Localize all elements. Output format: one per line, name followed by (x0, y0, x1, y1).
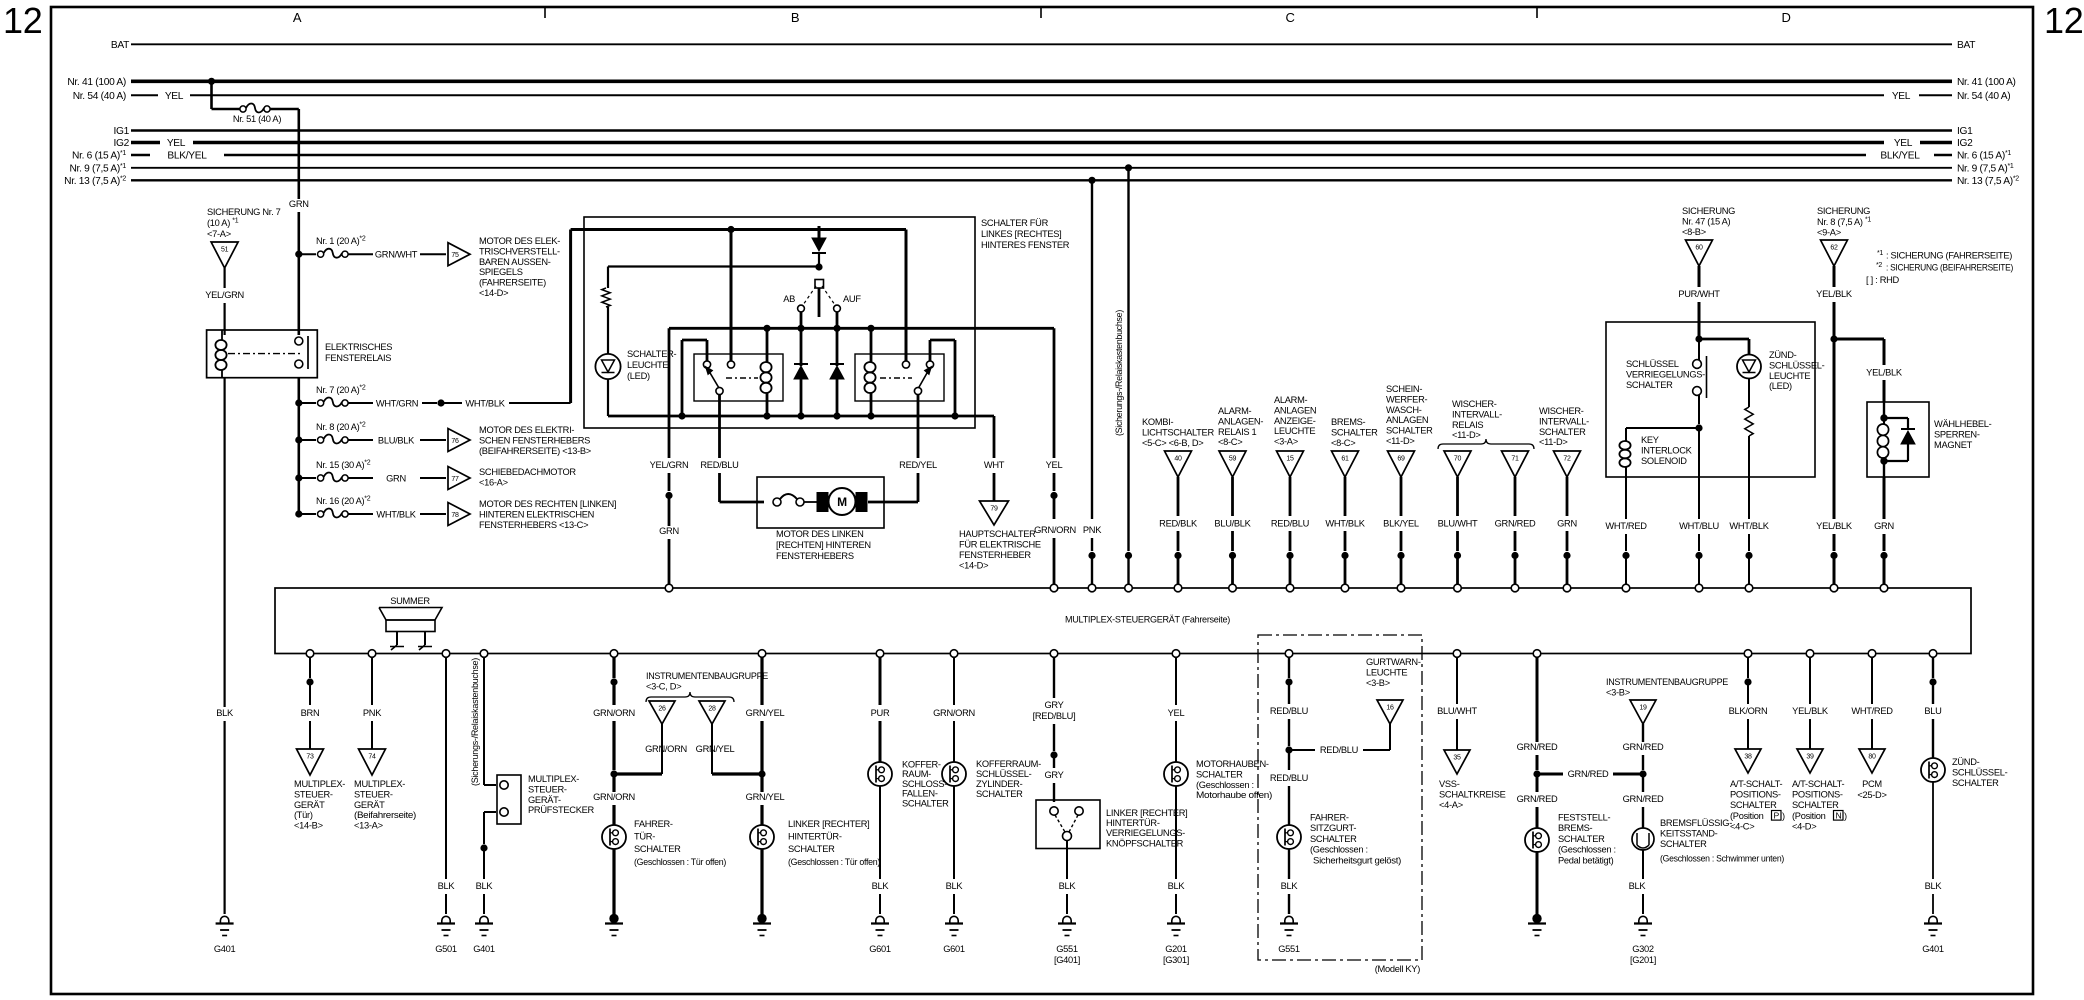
svg-text:26: 26 (658, 706, 666, 713)
svg-text:ZÜND-: ZÜND- (1952, 757, 1980, 767)
component SCHEINWERFER-WASCHANLAGEN triangle 69 (1388, 451, 1415, 477)
svg-text:SCHALTER: SCHALTER (1660, 839, 1707, 849)
wire GRN down to relay (297, 109, 300, 199)
switch box SCHALTER FUER HINTERES FENSTER (584, 217, 975, 428)
fuse row Nr.1 (20A) -> mirror motor 75 (296, 251, 302, 257)
BREMSFLUESSIGKEITSSTAND-SCHALTER symbol (1632, 828, 1654, 850)
svg-text:KEY: KEY (1641, 435, 1659, 445)
svg-text:BLK/YEL: BLK/YEL (167, 151, 207, 162)
svg-text:HINTERTÜR-: HINTERTÜR- (1106, 818, 1160, 828)
svg-text:38: 38 (1744, 754, 1752, 761)
svg-text:IG2: IG2 (113, 138, 129, 149)
svg-text:YEL: YEL (167, 138, 186, 149)
svg-text:<11-D>: <11-D> (1539, 437, 1568, 447)
svg-text:MULTIPLEX-STEUERGERÄT (Fahrers: MULTIPLEX-STEUERGERÄT (Fahrerseite) (1065, 615, 1230, 625)
svg-text:GERÄT: GERÄT (294, 800, 325, 810)
multiplex top edge connectors (665, 584, 673, 592)
svg-text:MOTOR DES LINKEN: MOTOR DES LINKEN (776, 529, 864, 539)
svg-text:SUMMER: SUMMER (390, 596, 430, 606)
svg-text:G302: G302 (1632, 944, 1654, 954)
svg-text:WERFER-: WERFER- (1386, 394, 1427, 404)
svg-text:P: P (1774, 811, 1780, 821)
svg-text:INTERVALL-: INTERVALL- (1452, 409, 1502, 419)
svg-text:G201: G201 (1165, 944, 1187, 954)
svg-text:GRN: GRN (1874, 521, 1894, 531)
svg-text:<16-A>: <16-A> (479, 477, 508, 487)
svg-text:SCHLOSS-: SCHLOSS- (902, 779, 947, 789)
svg-text:BLK: BLK (476, 881, 494, 891)
fuse Nr.51 (40A) (212, 108, 241, 111)
component BREMS-SCHALTER triangle 61 (1332, 451, 1359, 477)
svg-text:SCHALTER: SCHALTER (1539, 427, 1586, 437)
svg-text:GRY: GRY (1044, 770, 1063, 780)
svg-text:IG1: IG1 (113, 126, 129, 137)
svg-text:<4-C>: <4-C> (1730, 821, 1754, 831)
svg-text:<5-C> <6-B, D>: <5-C> <6-B, D> (1142, 438, 1203, 448)
svg-text:Nr. 9 (7,5 A)*1: Nr. 9 (7,5 A)*1 (1957, 163, 2014, 175)
bus Nr.54 (40A) YEL (131, 94, 158, 96)
rocker contact (815, 280, 824, 289)
svg-text:G501: G501 (435, 944, 457, 954)
svg-text:SCHLÜSSEL-: SCHLÜSSEL- (1769, 360, 1825, 370)
svg-text:G601: G601 (869, 944, 891, 954)
svg-text:70: 70 (1454, 456, 1462, 463)
svg-text:(Geschlossen :: (Geschlossen : (1196, 780, 1254, 790)
left relay contact loop to bottom (706, 340, 709, 361)
switch box VERRIEGELUNGS-KNOPFSCHALTER (1036, 800, 1100, 849)
svg-text:WÄHLHEBEL-: WÄHLHEBEL- (1934, 419, 1992, 429)
svg-text:PUR: PUR (871, 708, 890, 718)
wire WHT/RED (1625, 477, 1627, 519)
svg-text:<4-A>: <4-A> (1439, 800, 1463, 810)
svg-text:BAREN AUSSEN-: BAREN AUSSEN- (479, 257, 551, 267)
svg-text:60: 60 (1695, 245, 1703, 252)
wire GRN/YEL HINTERTUER-SCHALTER (760, 657, 763, 705)
ground G401 left (220, 916, 228, 923)
svg-text:71: 71 (1511, 456, 1519, 463)
svg-text:ZYLINDER-: ZYLINDER- (976, 779, 1023, 789)
svg-text:M: M (837, 495, 847, 509)
bus IG2 YEL (131, 141, 160, 144)
svg-text:: SICHERUNG (BEIFAHRERSEITE): : SICHERUNG (BEIFAHRERSEITE) (1886, 263, 2013, 273)
svg-text:KOMBI-: KOMBI- (1142, 417, 1173, 427)
svg-text:AUF: AUF (843, 294, 861, 304)
svg-text:Nr. 7 (20 A)*2: Nr. 7 (20 A)*2 (316, 385, 366, 396)
svg-text:WHT/GRN: WHT/GRN (376, 399, 418, 409)
svg-text:G401: G401 (214, 944, 236, 954)
svg-text:78: 78 (451, 512, 459, 519)
svg-text:RED/BLU: RED/BLU (1270, 706, 1308, 716)
svg-text:G401: G401 (473, 944, 495, 954)
svg-text:WHT/RED: WHT/RED (1605, 521, 1647, 531)
svg-text:Nr. 41 (100 A): Nr. 41 (100 A) (67, 77, 126, 88)
svg-text:STEUER-: STEUER- (294, 789, 333, 799)
svg-text:LINKES [RECHTES]: LINKES [RECHTES] (981, 229, 1061, 239)
svg-text:WHT: WHT (984, 460, 1005, 470)
wire WHT/RED PCM triangle 80 (1871, 657, 1873, 704)
column tick C/D (1536, 8, 1538, 18)
svg-text:GURTWARN-: GURTWARN- (1366, 657, 1421, 667)
svg-text:BLU/WHT: BLU/WHT (1437, 706, 1477, 716)
svg-text:A/T-SCHALT-: A/T-SCHALT- (1792, 779, 1845, 789)
svg-text:KEITSSTAND-: KEITSSTAND- (1660, 828, 1718, 838)
svg-text:AB: AB (783, 294, 795, 304)
svg-text:POSITIONS-: POSITIONS- (1792, 789, 1843, 799)
svg-text:SCHALTER: SCHALTER (1331, 427, 1378, 437)
svg-text:SITZGURT-: SITZGURT- (1310, 823, 1356, 833)
left relay of switch (694, 354, 783, 401)
bus Nr.9 (7,5A) (131, 167, 1952, 169)
relay contacts (295, 337, 303, 345)
svg-text:FENSTERELAIS: FENSTERELAIS (325, 353, 391, 363)
svg-text:<14-B>: <14-B> (294, 821, 323, 831)
wire YEL MOTORHAUBEN-SCHALTER (1175, 657, 1177, 705)
svg-text:SOLENOID: SOLENOID (1641, 456, 1687, 466)
svg-text:LEUCHTE: LEUCHTE (1769, 371, 1810, 381)
svg-text:YEL: YEL (1168, 708, 1185, 718)
svg-text:(Position: (Position (1792, 811, 1826, 821)
wire WHT/BLU (1698, 428, 1700, 477)
svg-text:GRN: GRN (659, 526, 679, 536)
svg-text:TÜR-: TÜR- (634, 832, 655, 842)
svg-text:SCHALTER: SCHALTER (1196, 769, 1243, 779)
svg-text:(Tür): (Tür) (294, 810, 313, 820)
svg-text:*1: *1 (1877, 250, 1883, 257)
magnet diode (1884, 417, 1908, 419)
svg-text:GRY: GRY (1044, 700, 1063, 710)
wire YEL/BLK down (1833, 335, 1836, 520)
svg-text:75: 75 (451, 252, 459, 259)
svg-text:KOFFER-: KOFFER- (902, 760, 941, 770)
svg-text:<11-D>: <11-D> (1386, 436, 1415, 446)
fuse triangle 51 (211, 242, 238, 268)
box SCHLUESSEL VERRIEGELUNGSSCHALTER (1606, 322, 1815, 477)
svg-text:FAHRER-: FAHRER- (634, 819, 673, 829)
svg-text:(Geschlossen :: (Geschlossen : (1558, 845, 1616, 855)
svg-text:35: 35 (1453, 755, 1461, 762)
svg-text:WASCH-: WASCH- (1386, 405, 1422, 415)
svg-text:GERÄT-: GERÄT- (528, 795, 561, 805)
svg-text:SCHLÜSSEL: SCHLÜSSEL (1626, 359, 1679, 369)
svg-text:GRN/YEL: GRN/YEL (746, 708, 785, 718)
wire Sicherungs-Relaiskastenbuchse to Pruefstecker (483, 657, 485, 785)
svg-text:HINTERES FENSTER: HINTERES FENSTER (981, 240, 1070, 250)
wire BLK/ORN AT-SCHALT P triangle 38 (1747, 657, 1749, 678)
svg-text:RED/BLU: RED/BLU (1271, 519, 1309, 529)
svg-text:YEL: YEL (1046, 460, 1063, 470)
svg-text:RED/BLU: RED/BLU (1270, 773, 1308, 783)
wire WHT/BLK up to switch box (569, 230, 572, 404)
svg-text:HINTEREN ELEKTRISCHEN: HINTEREN ELEKTRISCHEN (479, 509, 594, 519)
svg-text:PRÜFSTECKER: PRÜFSTECKER (528, 805, 595, 815)
svg-text:SICHERUNG: SICHERUNG (1817, 206, 1870, 216)
svg-text:Nr. 41 (100 A): Nr. 41 (100 A) (1957, 77, 2016, 88)
svg-text:<25-D>: <25-D> (1857, 790, 1886, 800)
bottom inner wire (608, 415, 955, 418)
dash-dot box Modell KY (1258, 635, 1422, 960)
svg-text:WISCHER-: WISCHER- (1539, 406, 1584, 416)
svg-text:GRN: GRN (1557, 519, 1577, 529)
svg-text:GRN/YEL: GRN/YEL (746, 792, 785, 802)
fuse triangle 62 (1821, 240, 1848, 266)
svg-text:PUR/WHT: PUR/WHT (1678, 289, 1720, 299)
svg-text:Nr. 8 (20 A)*2: Nr. 8 (20 A)*2 (316, 422, 366, 433)
right relay of switch (855, 354, 944, 401)
svg-text:BLK: BLK (1281, 881, 1299, 891)
svg-text:15: 15 (1286, 456, 1294, 463)
svg-text:YEL: YEL (1892, 91, 1911, 102)
svg-text:<8-C>: <8-C> (1331, 438, 1355, 448)
bus BAT (131, 43, 1952, 45)
svg-text:SCHIEBEDACHMOTOR: SCHIEBEDACHMOTOR (479, 467, 576, 477)
svg-text:(LED): (LED) (627, 371, 650, 381)
svg-text:GRN/ORN: GRN/ORN (593, 708, 635, 718)
svg-text:40: 40 (1174, 456, 1182, 463)
svg-text:G551: G551 (1278, 944, 1300, 954)
connector MULTIPLEX-PRUEFSTECKER (497, 775, 521, 824)
wire BLK to G501 (445, 657, 447, 879)
svg-text:16: 16 (1386, 705, 1394, 712)
svg-text:BAT: BAT (1957, 40, 1975, 51)
svg-text:RED/YEL: RED/YEL (899, 460, 937, 470)
svg-text:FENSTERHEBERS <13-C>: FENSTERHEBERS <13-C> (479, 520, 588, 530)
svg-text:(Geschlossen : Tür offen): (Geschlossen : Tür offen) (788, 857, 880, 867)
wire from Nr.41 down (210, 81, 213, 109)
svg-text:ELEKTRISCHES: ELEKTRISCHES (325, 342, 392, 352)
svg-text:SCHALTER: SCHALTER (1626, 380, 1673, 390)
svg-text:FÜR ELEKTRISCHE: FÜR ELEKTRISCHE (959, 540, 1041, 550)
junction GRN/RED link (1537, 773, 1563, 776)
wire AB down to diode (800, 312, 803, 366)
svg-text:MOTOR DES RECHTEN [LINKEN]: MOTOR DES RECHTEN [LINKEN] (479, 499, 616, 509)
svg-text:Nr. 16 (20 A)*2: Nr. 16 (20 A)*2 (316, 496, 371, 507)
diode at top of switch (818, 226, 821, 238)
resistor below LED (1745, 407, 1753, 436)
svg-text:WHT/BLK: WHT/BLK (376, 510, 416, 520)
svg-text:BLU/BLK: BLU/BLK (1214, 519, 1251, 529)
svg-text:BLK: BLK (946, 881, 964, 891)
svg-text:GRN/ORN: GRN/ORN (933, 708, 975, 718)
svg-text:N: N (1836, 811, 1842, 821)
svg-text:<8-B>: <8-B> (1682, 227, 1706, 237)
svg-text:KNÖPFSCHALTER: KNÖPFSCHALTER (1106, 838, 1184, 848)
svg-text:ANLAGEN-: ANLAGEN- (1218, 416, 1263, 426)
svg-text:GRN: GRN (289, 199, 309, 209)
svg-text:Nr. 13 (7,5 A)*2: Nr. 13 (7,5 A)*2 (1957, 176, 2019, 188)
svg-text:YEL/BLK: YEL/BLK (1866, 368, 1903, 378)
svg-text:VSS-: VSS- (1439, 779, 1460, 789)
svg-text:Nr. 54 (40 A): Nr. 54 (40 A) (73, 91, 126, 102)
svg-text:SCHALTER: SCHALTER (1558, 834, 1605, 844)
svg-text:BAT: BAT (111, 40, 129, 51)
multiplex control unit box (275, 588, 1971, 654)
right relay coil wire (870, 328, 873, 362)
svg-text:<8-C>: <8-C> (1218, 437, 1242, 447)
relay coil (215, 340, 226, 350)
svg-text:YEL/BLK: YEL/BLK (1816, 289, 1853, 299)
dashed rocker links AB AUF (803, 286, 816, 305)
svg-text:Nr. 51 (40 A): Nr. 51 (40 A) (233, 114, 281, 124)
svg-text:GRN/YEL: GRN/YEL (696, 744, 735, 754)
svg-text:(Geschlossen :: (Geschlossen : (1310, 845, 1368, 855)
svg-text:Nr. 9 (7,5 A)*1: Nr. 9 (7,5 A)*1 (70, 163, 127, 175)
wire RED/BLU SITZGURT (1288, 657, 1290, 678)
svg-text:YEL/GRN: YEL/GRN (205, 290, 244, 300)
svg-text:MOTOR DES ELEK-: MOTOR DES ELEK- (479, 236, 560, 246)
svg-text:BLK: BLK (216, 708, 234, 718)
svg-text:SCHALTER: SCHALTER (976, 789, 1023, 799)
svg-text:SCHALTKREISE: SCHALTKREISE (1439, 789, 1506, 799)
svg-text:GRN/RED: GRN/RED (1517, 794, 1558, 804)
svg-text:PCM: PCM (1862, 779, 1882, 789)
svg-text:SCHALTER: SCHALTER (1730, 800, 1777, 810)
svg-text:76: 76 (451, 438, 459, 445)
fuse row Nr.16 (20A) -> rear window motor 78 (296, 511, 302, 517)
svg-text:FENSTERHEBER: FENSTERHEBER (959, 550, 1031, 560)
svg-text:VERRIEGELUNGS-: VERRIEGELUNGS- (1626, 369, 1705, 379)
relay dash-dot link (228, 353, 301, 355)
svg-text:A: A (293, 10, 302, 25)
wire GRY RED/BLU KNOPFSCHALTER (1053, 657, 1055, 698)
wire right top contact (905, 230, 908, 362)
wire WHT to main switch (955, 415, 994, 418)
svg-text:GRN/RED: GRN/RED (1568, 769, 1609, 779)
fuse row Nr.15 (30A) -> sunroof 77 (296, 475, 302, 481)
svg-text:YEL/GRN: YEL/GRN (650, 460, 689, 470)
svg-text:WHT/RED: WHT/RED (1851, 706, 1893, 716)
svg-text:BLK: BLK (872, 881, 890, 891)
diode AUF (830, 363, 844, 365)
svg-text:INTERLOCK: INTERLOCK (1641, 445, 1693, 455)
svg-text:[G201]: [G201] (1630, 955, 1656, 965)
svg-text:LINKER [RECHTER]: LINKER [RECHTER] (788, 819, 869, 829)
wire RED/BLU from left relay (718, 394, 721, 458)
svg-text:G601: G601 (943, 944, 965, 954)
svg-text:BREMS-: BREMS- (1558, 823, 1593, 833)
svg-text:BLK/ORN: BLK/ORN (1729, 706, 1768, 716)
svg-text:BLK: BLK (1168, 881, 1186, 891)
svg-text:GERÄT: GERÄT (354, 800, 385, 810)
svg-text:VERRIEGELUNGS-: VERRIEGELUNGS- (1106, 828, 1185, 838)
svg-text:BREMS-: BREMS- (1331, 417, 1366, 427)
svg-text:LEUCHTE: LEUCHTE (1366, 667, 1407, 677)
svg-text:SCHALTER: SCHALTER (1386, 426, 1433, 436)
wire YEL/GRN (224, 268, 226, 288)
svg-text:(FAHRERSEITE): (FAHRERSEITE) (479, 278, 546, 288)
svg-text:SCHALTER: SCHALTER (1310, 834, 1357, 844)
svg-text:SPIEGELS: SPIEGELS (479, 267, 523, 277)
wire RED/YEL from right relay (917, 394, 920, 458)
svg-text:12: 12 (3, 0, 42, 41)
svg-text:RAUM-: RAUM- (902, 769, 931, 779)
svg-text:61: 61 (1341, 456, 1349, 463)
svg-text:SPERREN-: SPERREN- (1934, 429, 1980, 439)
right relay contact loop to bottom (929, 340, 932, 361)
svg-text:SICHERUNG Nr. 7: SICHERUNG Nr. 7 (207, 207, 281, 217)
svg-text:G401: G401 (1922, 944, 1944, 954)
svg-text:(Geschlossen : Tür offen): (Geschlossen : Tür offen) (634, 857, 726, 867)
window motor M (817, 493, 828, 512)
svg-text:SCHALTER: SCHALTER (1952, 778, 1999, 788)
svg-text:D: D (1781, 10, 1790, 25)
wire PUR KOFFERRAUM-SCHLOSS (879, 657, 882, 705)
svg-text:(BEIFAHRERSEITE) <13-B>: (BEIFAHRERSEITE) <13-B> (479, 446, 591, 456)
wire AUF down to diode (836, 312, 839, 366)
svg-text:69: 69 (1397, 456, 1405, 463)
svg-text:ALARM-: ALARM- (1274, 395, 1308, 405)
bus Nr.13 (7,5A) (131, 179, 1952, 181)
svg-text:(LED): (LED) (1769, 381, 1792, 391)
triangle 79 HAUPTSCHALTER (980, 501, 1009, 525)
fuse triangle 60 (1686, 240, 1713, 266)
svg-text:BRN: BRN (301, 708, 320, 718)
svg-text:GRN: GRN (386, 474, 406, 484)
svg-text:SCHALTER: SCHALTER (902, 798, 949, 808)
svg-text:BLK/YEL: BLK/YEL (1880, 151, 1920, 162)
svg-text:(Sicherungs-/Relaiskastenbuchs: (Sicherungs-/Relaiskastenbuchse) (470, 658, 480, 786)
svg-text:HAUPTSCHALTER: HAUPTSCHALTER (959, 529, 1036, 539)
svg-text:RELAIS 1: RELAIS 1 (1218, 427, 1257, 437)
svg-text:FESTSTELL-: FESTSTELL- (1558, 813, 1610, 823)
svg-text:BLK: BLK (438, 881, 456, 891)
svg-text:<13-A>: <13-A> (354, 821, 383, 831)
svg-text:YEL/BLK: YEL/BLK (1816, 521, 1853, 531)
svg-text:PNK: PNK (363, 708, 382, 718)
wire PNK triangle 74 MULTIPLEX (Beifahrerseite) (371, 657, 373, 705)
wire YEL/GRN down from switch (668, 328, 671, 458)
svg-text:SCHLÜSSEL-: SCHLÜSSEL- (976, 769, 1032, 779)
inner wire to LED resistor (608, 265, 819, 267)
svg-text:C: C (1285, 10, 1294, 25)
svg-text:Nr. 8 (7,5 A) *1: Nr. 8 (7,5 A) *1 (1817, 216, 1871, 227)
svg-text:RED/BLK: RED/BLK (1159, 519, 1198, 529)
svg-text:: SICHERUNG (FAHRERSEITE): : SICHERUNG (FAHRERSEITE) (1886, 251, 2012, 261)
motor box (757, 477, 884, 528)
svg-text:YEL: YEL (165, 91, 184, 102)
svg-text:LEUCHTE: LEUCHTE (627, 360, 668, 370)
wire GRN below magnet (1883, 477, 1886, 519)
svg-text:LEUCHTE: LEUCHTE (1274, 426, 1315, 436)
wire GRN/ORN FAHRER-TUER-SCHALTER (612, 657, 615, 678)
svg-text:G551: G551 (1056, 944, 1078, 954)
svg-text:Nr. 15 (30 A)*2: Nr. 15 (30 A)*2 (316, 460, 371, 471)
svg-text:GRN/ORN: GRN/ORN (645, 744, 687, 754)
svg-text:(Beifahrerseite): (Beifahrerseite) (354, 810, 416, 820)
svg-text:FALLEN-: FALLEN- (902, 789, 938, 799)
svg-text:ANLAGEN: ANLAGEN (1386, 415, 1428, 425)
svg-text:FAHRER-: FAHRER- (1310, 813, 1349, 823)
left relay coil wire (766, 328, 769, 362)
svg-text:Nr. 13 (7,5 A)*2: Nr. 13 (7,5 A)*2 (64, 176, 126, 188)
svg-text:Nr. 6 (15 A)*1: Nr. 6 (15 A)*1 (72, 150, 126, 162)
svg-text:28: 28 (708, 706, 716, 713)
svg-text:RED/BLU: RED/BLU (1320, 745, 1358, 755)
wire Sicherungs-Relaiskastenbuchse from Nr.9 (1125, 165, 1131, 171)
svg-text:<7-A>: <7-A> (207, 229, 231, 239)
wire WHT/BLK led (1748, 477, 1750, 519)
LED ZUENDSCHLUESSEL-LEUCHTE (1737, 355, 1761, 379)
box WAEHLHEBEL-SPERREN-MAGNET (1867, 402, 1929, 477)
branch to LED (1699, 338, 1749, 341)
svg-text:BLU/BLK: BLU/BLK (378, 436, 415, 446)
svg-text:MULTIPLEX-: MULTIPLEX- (354, 779, 405, 789)
svg-text:IG1: IG1 (1957, 126, 1973, 137)
svg-text:BLU/WHT: BLU/WHT (1438, 519, 1478, 529)
svg-text:FENSTERHEBERS: FENSTERHEBERS (776, 551, 854, 561)
svg-text:WHT/BLU: WHT/BLU (1679, 521, 1719, 531)
component ALARM-ANLAGEN-RELAIS triangle 59 (1219, 451, 1246, 477)
svg-text:SCHALTER FÜR: SCHALTER FÜR (981, 218, 1049, 228)
